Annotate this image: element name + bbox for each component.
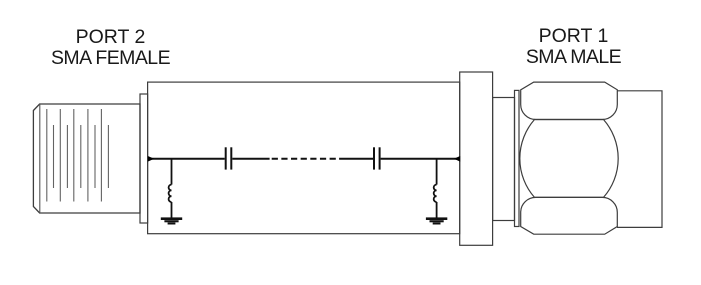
- inductor L2: [434, 159, 437, 218]
- label PORT 1 SMA MALE: [463, 26, 684, 68]
- hex nut top facet: [521, 82, 618, 119]
- label PORT 2 SMA FEMALE: [0, 27, 221, 69]
- hex nut middle facet: [520, 120, 618, 198]
- wire between dashed section and C2: [339, 158, 373, 160]
- capacitor C2: [374, 147, 380, 169]
- inductor L1: [169, 159, 172, 218]
- male side washer strip: [515, 90, 520, 226]
- output arrowhead (right pin): [454, 156, 460, 162]
- ground (left): [161, 217, 182, 224]
- ground (right): [426, 217, 447, 224]
- knurl long lines: [47, 109, 102, 202]
- wire right segment: [381, 158, 460, 160]
- dashed transmission line: [272, 158, 336, 160]
- female side collar: [140, 94, 148, 223]
- wire between C1 and dashed section: [232, 158, 269, 160]
- mounting flange: [460, 72, 493, 245]
- threaded barrel: [617, 91, 662, 228]
- wire left segment: [149, 158, 225, 160]
- SMA female knurled nut body: [33, 104, 140, 213]
- input arrowhead (left pin): [148, 156, 154, 162]
- main body: [148, 82, 460, 234]
- hex nut bottom facet: [521, 197, 618, 234]
- capacitor C1: [226, 147, 232, 169]
- male side collar: [493, 98, 515, 221]
- knurl face edge line: [39, 104, 41, 213]
- knurl short lines: [54, 125, 109, 188]
- schematic: main through line: [149, 158, 460, 160]
